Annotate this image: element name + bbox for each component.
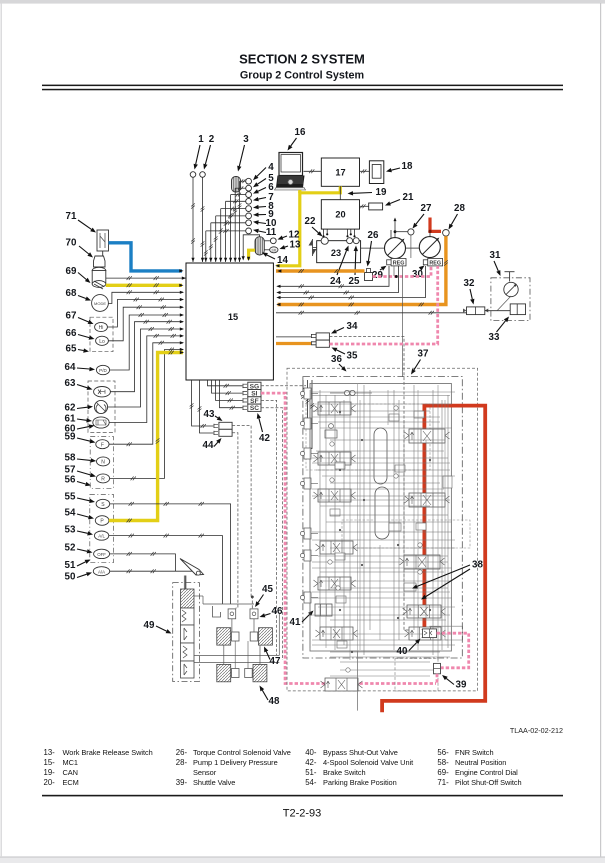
pump1 control lines — [390, 230, 392, 238]
svg-text:FNR Switch: FNR Switch — [455, 748, 494, 757]
wires MC1 bottom to solenoid unit — [208, 380, 243, 386]
wire from node 2 into MC1 — [202, 177, 204, 262]
svg-text:37: 37 — [418, 349, 429, 360]
work-mode group box — [88, 381, 115, 433]
svg-text:69-: 69- — [437, 768, 449, 777]
terminal 7 — [246, 198, 252, 204]
terminal 5 — [246, 185, 252, 191]
wire valve 32 to motor 33 — [485, 310, 510, 312]
shuttle valve 39 — [434, 663, 441, 673]
accumulator capsule 2 — [375, 487, 389, 539]
wire S down to pilot valves — [110, 504, 231, 604]
svg-text:Pump 1 Delivery Pressure: Pump 1 Delivery Pressure — [193, 758, 278, 767]
pump 2 (28 circle) — [419, 237, 440, 258]
wire pink: valve 40 to shuttle 39 — [437, 633, 469, 668]
svg-text:50: 50 — [65, 572, 76, 583]
dashed drop pump1 to valve block — [402, 266, 404, 377]
wire MC1 bottom to 44 — [200, 380, 214, 433]
svg-text:1: 1 — [198, 134, 204, 145]
svg-text:53: 53 — [65, 525, 76, 536]
svg-text:51-: 51- — [305, 768, 317, 777]
terminal 13 — [270, 247, 278, 253]
dashed drop REG1 — [393, 266, 395, 276]
pilot shut-off switch 71 — [97, 230, 109, 251]
svg-text:25: 25 — [349, 276, 360, 287]
svg-text:TLAA-02-02-212: TLAA-02-02-212 — [510, 726, 563, 735]
FNR hi/lo group box — [90, 317, 113, 352]
wire CAN yellow: 17 to MC1 — [277, 186, 341, 265]
svg-text:43: 43 — [204, 409, 215, 420]
spool valve row6-left — [320, 627, 353, 640]
wire terminal 11 to MC1 — [206, 230, 246, 232]
switch Lo 66 — [96, 336, 109, 345]
svg-text:17: 17 — [335, 168, 345, 178]
svg-text:11: 11 — [266, 227, 277, 238]
svg-text:21: 21 — [403, 192, 414, 203]
node 1 terminal — [190, 172, 196, 178]
terminal 4 — [246, 178, 252, 184]
wire terminal 4 to MC1 — [240, 180, 246, 182]
wire terminal 10 to MC1 — [211, 222, 246, 224]
svg-text:65: 65 — [66, 344, 77, 355]
svg-text:2: 2 — [209, 134, 215, 145]
connector 21 — [369, 203, 383, 210]
svg-text:59: 59 — [65, 432, 76, 443]
svg-text:Neutral Position: Neutral Position — [455, 758, 506, 767]
svg-text:44: 44 — [203, 440, 214, 451]
control lever — [180, 559, 204, 576]
svg-text:68: 68 — [66, 288, 77, 299]
pilot solenoid L4 — [304, 478, 311, 489]
svg-text:CAN: CAN — [63, 768, 78, 777]
svg-text:46: 46 — [272, 606, 283, 617]
wire mode 68 to MC1 — [108, 292, 183, 303]
brake pads row2 — [217, 664, 231, 681]
svg-text:Sensor: Sensor — [193, 768, 217, 777]
drain line right — [430, 626, 463, 640]
svg-text:54-: 54- — [305, 778, 317, 787]
wire pink: connector 35 to REG 30 — [329, 266, 437, 344]
dashed line 44 to pilot plug — [232, 433, 238, 608]
svg-text:Shuttle Valve: Shuttle Valve — [193, 778, 235, 787]
wire dial 69 sensor to MC1 — [106, 277, 186, 279]
wire terminal 6 to MC1 — [231, 194, 246, 196]
svg-text:62: 62 — [65, 403, 76, 414]
wire CAN yellow connector 14 to MC1 top — [249, 250, 255, 259]
wire terminal 9 to MC1 — [216, 215, 246, 217]
svg-text:32: 32 — [464, 278, 475, 289]
svg-text:54: 54 — [65, 508, 76, 519]
terminal 8 — [246, 206, 252, 212]
svg-text:40: 40 — [397, 646, 408, 657]
wire yellow P to MC1 — [109, 353, 183, 521]
svg-text:33: 33 — [489, 332, 500, 343]
svg-text:56-: 56- — [437, 748, 449, 757]
svg-text:Work Brake Release Switch: Work Brake Release Switch — [63, 748, 153, 757]
svg-text:22: 22 — [305, 216, 316, 227]
sensor 28 — [443, 230, 450, 237]
pilot solenoid L7 — [304, 592, 311, 603]
svg-text:70: 70 — [66, 238, 77, 249]
svg-text:N: N — [101, 460, 105, 466]
MC1 block 15 — [186, 263, 273, 380]
svg-text:18: 18 — [402, 161, 413, 172]
svg-text:55: 55 — [65, 492, 76, 503]
connector 3 — [232, 177, 241, 193]
block 20 — [321, 200, 359, 229]
svg-text:19: 19 — [376, 187, 387, 198]
spool valve row3-right — [404, 555, 440, 569]
pump 1 (27 circle) — [385, 238, 406, 259]
svg-text:71: 71 — [66, 211, 77, 222]
spool valve row3-left — [318, 489, 351, 502]
svg-text:Torque Control Solenoid Valve: Torque Control Solenoid Valve — [193, 748, 291, 757]
block 17 — [321, 158, 359, 186]
pilot plug 45 — [228, 609, 236, 619]
small boxes texture — [335, 462, 345, 469]
motor 33 shaft — [509, 272, 511, 282]
internal lattice lines — [312, 395, 450, 397]
travel motor box 31 — [491, 278, 530, 321]
wire red: pump2 pressure — [430, 218, 441, 232]
switch R 57 — [96, 474, 109, 483]
pilot plug 46 — [250, 609, 258, 619]
svg-text:71-: 71- — [437, 778, 449, 787]
svg-text:Engine Control Dial: Engine Control Dial — [455, 768, 518, 777]
svg-text:23: 23 — [331, 248, 341, 258]
wire orange: MC1 to valve 26 — [276, 269, 365, 272]
brake pads row1 — [217, 628, 231, 645]
valve 49 body — [181, 589, 195, 608]
pilot solenoid L5 — [304, 528, 311, 539]
sensors 24 25 — [347, 238, 353, 244]
small valve 41 — [315, 604, 332, 616]
svg-text:Bypass Shut-Out Valve: Bypass Shut-Out Valve — [323, 748, 398, 757]
dashed line 43 to pilot plug — [232, 425, 251, 597]
check valve 36a — [344, 390, 349, 395]
brake valve 49 box — [173, 583, 200, 682]
svg-text:Lo: Lo — [99, 339, 105, 345]
brake switch group box 51 — [90, 494, 114, 562]
svg-text:4-Spool Solenoid Valve Unit: 4-Spool Solenoid Valve Unit — [323, 758, 413, 767]
svg-text:SR: SR — [271, 249, 276, 253]
svg-text:A/A: A/A — [98, 569, 105, 574]
svg-text:42-: 42- — [305, 758, 317, 767]
svg-text:69: 69 — [66, 266, 77, 277]
spool valve row2-left — [318, 452, 351, 465]
svg-text:39: 39 — [456, 680, 467, 691]
pilot solenoid L2 — [304, 418, 311, 429]
spool valve row6-right — [409, 627, 441, 640]
wire pink: valve 26 to regulator 30 — [373, 267, 432, 277]
wire 62 to MC1 — [108, 329, 183, 407]
svg-text:48: 48 — [269, 696, 280, 707]
svg-text:4: 4 — [268, 162, 274, 173]
svg-text:38: 38 — [472, 560, 483, 571]
torque control solenoid valve 26 — [365, 273, 373, 281]
svg-text:20: 20 — [335, 210, 345, 220]
wire A/A to lever — [110, 570, 196, 572]
wire REG 29 drop to MC1 — [278, 266, 390, 286]
pilot manifold lines — [194, 655, 279, 657]
svg-text:36: 36 — [331, 354, 342, 365]
wire 17 to 20 — [339, 186, 341, 199]
svg-text:14: 14 — [277, 255, 288, 266]
svg-text:49: 49 — [144, 620, 155, 631]
pump regulator 29 — [391, 259, 406, 266]
wire blue: 71 to MC1 — [109, 243, 183, 271]
wires block20 to engine sensors — [323, 229, 325, 235]
wire pink: SI to valve block — [261, 393, 436, 683]
wire REG 30 drop to MC1 — [278, 266, 426, 298]
svg-text:T2-2-93: T2-2-93 — [283, 808, 322, 820]
svg-text:41: 41 — [290, 617, 301, 628]
svg-text:58-: 58- — [437, 758, 449, 767]
svg-text:16: 16 — [295, 127, 306, 138]
sensor 27 — [408, 229, 414, 235]
wire P/D to MC1 — [110, 315, 183, 370]
wire orange: MC1 to connector 35 — [276, 342, 311, 345]
svg-text:28-: 28- — [176, 758, 188, 767]
mode switch 68 — [92, 295, 109, 312]
pilot circuit dashed box 36 — [287, 368, 478, 691]
bypass shut-out valve 40 — [423, 629, 437, 638]
svg-text:30: 30 — [412, 269, 423, 280]
dashed pilot line from SG — [261, 385, 306, 387]
svg-text:56: 56 — [65, 475, 76, 486]
svg-text:26-: 26- — [176, 748, 188, 757]
svg-text:45: 45 — [262, 584, 273, 595]
svg-text:R: R — [101, 477, 105, 483]
wire terminal 8 to MC1 — [221, 208, 246, 210]
svg-text:58: 58 — [65, 453, 76, 464]
svg-text:13-: 13- — [44, 748, 56, 757]
engine block 23 — [317, 241, 361, 263]
spool valve row5-left — [318, 577, 351, 590]
svg-text:Brake Switch: Brake Switch — [323, 768, 366, 777]
svg-text:REG: REG — [429, 260, 441, 266]
svg-text:40-: 40- — [305, 748, 317, 757]
svg-text:20-: 20- — [44, 778, 56, 787]
wire connector 14 to MC1 top — [243, 235, 259, 259]
svg-text:REG: REG — [393, 260, 405, 266]
switch A/A 50 — [93, 567, 109, 576]
servo 33 — [510, 304, 525, 315]
svg-text:51: 51 — [65, 560, 76, 571]
svg-text:Pilot Shut-Off Switch: Pilot Shut-Off Switch — [455, 778, 522, 787]
connector 43/44 — [219, 422, 232, 429]
connector 70 — [94, 256, 106, 267]
svg-text:67: 67 — [66, 311, 77, 322]
wire pump1 drop to MC1 — [278, 266, 399, 293]
wire pink: shuttle 39 drop — [436, 674, 439, 684]
engine control dial 69 — [92, 267, 106, 289]
svg-text:27: 27 — [421, 203, 432, 214]
svg-text:26: 26 — [368, 230, 379, 241]
dashed pilot line from SF — [261, 400, 277, 655]
valve housing — [310, 384, 451, 652]
svg-text:24: 24 — [330, 276, 341, 287]
wire MC1 to connector 34 — [276, 336, 311, 338]
wire sensor 27 drop — [410, 235, 412, 258]
wire terminal 7 to MC1 — [226, 200, 246, 202]
terminal 12 — [270, 238, 276, 244]
red pilot shut-off line — [382, 406, 485, 713]
svg-text:SC: SC — [250, 405, 259, 412]
wire engine to pump1 — [361, 247, 385, 249]
engine fan — [309, 239, 317, 256]
svg-text:39-: 39- — [176, 778, 188, 787]
svg-text:SECTION 2 SYSTEM: SECTION 2 SYSTEM — [239, 52, 365, 67]
solenoid unit 42: SG SI SF SC — [248, 382, 261, 389]
pilot solenoid L1 — [304, 388, 311, 399]
wire 17 to 18 — [360, 170, 370, 172]
svg-text:OFF: OFF — [97, 552, 106, 557]
svg-text:42: 42 — [259, 433, 270, 444]
pump2 control line — [429, 231, 431, 236]
svg-text:35: 35 — [347, 351, 358, 362]
relief valve top — [325, 430, 337, 438]
svg-text:28: 28 — [454, 203, 465, 214]
switch F 59 — [96, 440, 109, 449]
connector 34 — [316, 333, 329, 340]
spool valve row1-left — [318, 402, 351, 415]
wire F to MC1 — [109, 343, 183, 444]
spool valve row2-right — [409, 493, 445, 507]
wire laptop stub to CAN — [298, 190, 301, 193]
bracket 45a — [213, 606, 221, 617]
svg-text:MODE: MODE — [94, 301, 106, 306]
svg-text:F: F — [101, 442, 104, 448]
wire yellow: dial 69 to MC1 — [106, 284, 182, 287]
housing inner lines — [356, 384, 358, 652]
switch 62 (work mode) — [94, 400, 107, 413]
svg-text:13: 13 — [290, 240, 301, 251]
switch A/L 53 — [94, 531, 108, 540]
svg-text:MC1: MC1 — [63, 758, 78, 767]
FNR switch group box 56 — [90, 437, 113, 489]
svg-text:ECM: ECM — [63, 778, 79, 787]
switch OFF 52 — [94, 549, 110, 558]
terminal 10 — [246, 220, 252, 226]
switch P/D 64 — [96, 365, 109, 374]
dashed wire connector 34 to bypass valve — [329, 337, 421, 631]
switch P 54 (parking brake) — [95, 516, 109, 526]
switch Hi 67 — [95, 322, 108, 331]
switch 61/60 (attachment) — [93, 417, 109, 428]
svg-text:31: 31 — [490, 250, 501, 261]
terminal 6 — [246, 192, 252, 198]
svg-text:66: 66 — [66, 328, 77, 339]
monitor 18 — [369, 161, 383, 184]
switch N 58 — [97, 457, 110, 466]
spool valve row1-right — [409, 429, 445, 443]
dashed pilot line from SC — [261, 408, 283, 660]
node 2 terminal — [200, 172, 206, 178]
wire R to MC1 — [110, 350, 183, 479]
switch S 55 — [96, 499, 110, 508]
spool valve row4-left — [320, 541, 353, 554]
svg-text:47: 47 — [270, 656, 281, 667]
pilot solenoid L3 — [304, 448, 311, 459]
switch 63 (travel mode) — [94, 387, 111, 397]
pilot solenoid L6 — [304, 550, 311, 561]
terminal 9 — [246, 213, 252, 219]
svg-text:A/L: A/L — [98, 534, 105, 539]
connector 35 — [316, 340, 329, 347]
wire laptop to 17 — [304, 170, 322, 172]
wire A/L down to pilot valves — [109, 536, 223, 604]
sensor 22 — [321, 237, 328, 244]
laptop 16 (Dr.ZX download tool) — [275, 153, 306, 191]
svg-text:63: 63 — [65, 378, 76, 389]
wire from node 1 into MC1 — [192, 177, 194, 262]
wire Lo to MC1 — [108, 307, 183, 341]
spool valve bottom — [325, 678, 358, 691]
svg-text:P/D: P/D — [99, 368, 107, 373]
svg-text:Hi: Hi — [99, 325, 104, 331]
wire MC1 to valve 32 — [276, 312, 467, 314]
wire 61/60 to MC1 — [109, 336, 183, 423]
svg-text:Group 2 Control System: Group 2 Control System — [240, 70, 364, 82]
tank line — [356, 651, 358, 711]
wire terminal 5 to MC1 — [235, 187, 246, 189]
wire 20 to 21 — [360, 205, 369, 207]
wire MC1 bottom to 43 — [192, 380, 214, 426]
wire Hi to MC1 — [107, 300, 183, 328]
svg-text:15-: 15- — [44, 758, 56, 767]
wires MC1 bottom to valve block solenoids — [303, 380, 306, 389]
wire OFF to lever — [110, 554, 176, 571]
pilot cluster wires — [231, 619, 233, 632]
motor circle — [504, 282, 518, 296]
terminal 11 — [246, 228, 252, 234]
spool valve 38a — [407, 605, 441, 618]
svg-text:3: 3 — [243, 134, 249, 145]
svg-text:34: 34 — [347, 321, 358, 332]
svg-text:19-: 19- — [44, 768, 56, 777]
svg-text:52: 52 — [65, 543, 76, 554]
svg-text:64: 64 — [65, 362, 76, 373]
svg-text:Parking Brake Position: Parking Brake Position — [323, 778, 397, 787]
wire orange: sensor 28 to MC1 — [278, 236, 446, 304]
wire 63 to MC1 — [110, 322, 183, 392]
solenoid valve 32 — [467, 307, 485, 315]
lever shaft — [184, 576, 187, 592]
control valve dash-dot box 37 — [303, 377, 462, 658]
wire pump1 to pump2 — [406, 247, 420, 249]
accumulator capsule 1 — [374, 428, 387, 484]
connector 14 — [255, 237, 264, 255]
pump regulator 30 — [428, 259, 443, 266]
svg-text:15: 15 — [228, 312, 238, 322]
